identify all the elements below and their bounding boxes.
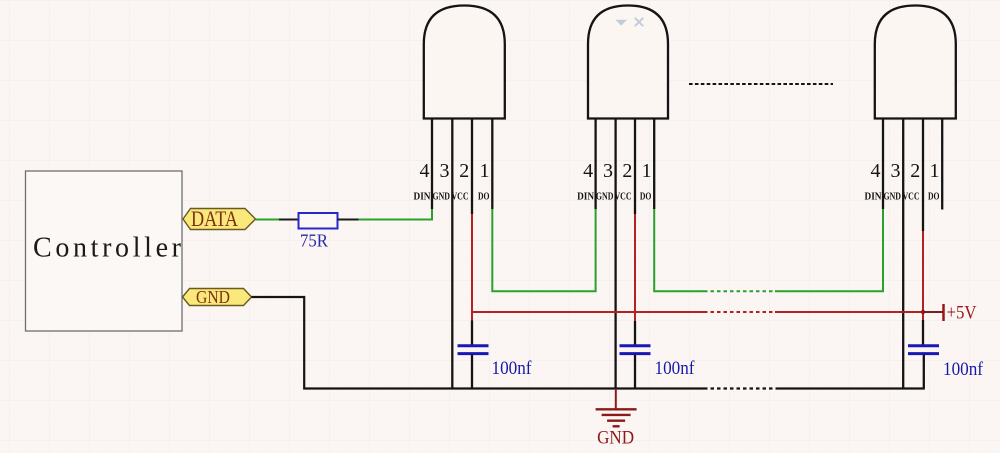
svg-text:DIN: DIN (414, 192, 432, 203)
wire LED1 VCC red riser (471, 214, 473, 321)
wire LED2 VCC red riser (634, 214, 636, 321)
svg-text:4: 4 (420, 160, 430, 182)
svg-text:DO: DO (478, 192, 490, 203)
LED D2 pin 1 DO (653, 119, 655, 210)
svg-text:4: 4 (583, 160, 593, 182)
+5V rail red solid right (775, 311, 921, 313)
svg-text:VCC: VCC (903, 192, 920, 203)
+5V rail red solid left (472, 311, 704, 313)
dashed continuation line between LED2 and LED3 (689, 83, 833, 85)
junction dot rail x LED3 VCC (921, 310, 925, 314)
svg-text:VCC: VCC (615, 192, 632, 203)
LED D1 pin 4 DIN (431, 119, 433, 210)
toolbar artifact icon triangle (616, 20, 628, 26)
LED D3 pin 3 GND (902, 119, 904, 389)
svg-text:3: 3 (440, 160, 450, 182)
port GND (183, 287, 252, 307)
LED D3 pin 4 DIN (882, 119, 884, 210)
wire LED3 VCC red riser (922, 231, 924, 320)
LED D1 pin 3 GND (451, 119, 453, 389)
ground symbol GND (596, 389, 637, 449)
svg-text:100nf: 100nf (492, 359, 533, 379)
wire GND flag to ground bus (252, 297, 705, 389)
resistor R1 (299, 213, 338, 251)
svg-text:DATA: DATA (191, 206, 238, 231)
svg-text:1: 1 (642, 160, 652, 182)
svg-text:+5V: +5V (947, 304, 978, 324)
ground bus dashed continuation (704, 387, 779, 389)
ground bus solid right (779, 387, 925, 389)
wire R1 right lead (black) (338, 219, 359, 221)
controller box U1 (26, 171, 183, 331)
svg-text:GND: GND (433, 192, 451, 203)
svg-text:GND: GND (596, 192, 614, 203)
svg-text:DIN: DIN (865, 192, 883, 203)
+5V rail red dashed (704, 311, 775, 313)
wire continuation (green dashed) (704, 290, 775, 292)
svg-text:75R: 75R (300, 231, 328, 251)
capacitor C2 (620, 321, 696, 389)
wire continuation to LED3 DIN (green solid) (775, 209, 883, 291)
LED D3 body (875, 6, 956, 119)
svg-text:DO: DO (928, 192, 940, 203)
svg-text:GND: GND (597, 428, 634, 449)
svg-text:2: 2 (459, 160, 469, 182)
+5V rail dark segment to power port (921, 311, 944, 313)
svg-text:2: 2 (910, 160, 920, 182)
wire DATA to R1 (black segment) (279, 219, 299, 221)
wire LED2 DO to continuation (green solid) (654, 209, 704, 291)
LED D3 pin 1 DO (941, 119, 943, 210)
LED D3 pin 2 VCC (922, 119, 924, 232)
svg-text:GND: GND (884, 192, 902, 203)
wire R1 to LED1 DIN (green) (359, 209, 433, 220)
power port +5V (944, 304, 978, 324)
svg-text:3: 3 (891, 160, 901, 182)
toolbar artifact icon cross (635, 18, 643, 26)
svg-text:DIN: DIN (577, 192, 595, 203)
LED D2 pin 4 DIN (594, 119, 596, 210)
LED D1 body (424, 6, 505, 119)
svg-text:1: 1 (930, 160, 940, 182)
svg-text:3: 3 (603, 160, 613, 182)
wire LED1 DO to LED2 DIN (green) (492, 209, 595, 291)
svg-text:VCC: VCC (452, 192, 469, 203)
LED D1 pin 1 DO (491, 119, 493, 210)
svg-text:4: 4 (871, 160, 881, 182)
svg-text:100nf: 100nf (655, 359, 696, 379)
LED D2 pin 3 GND (614, 119, 616, 390)
capacitor C1 (458, 321, 533, 389)
svg-text:2: 2 (622, 160, 632, 182)
wire DATA to R1 (green segment) (256, 219, 280, 221)
svg-text:DO: DO (640, 192, 652, 203)
port DATA (183, 206, 256, 231)
LED D2 body (588, 6, 668, 119)
svg-text:GND: GND (196, 287, 230, 307)
capacitor C3 (908, 320, 984, 389)
svg-text:Controller: Controller (33, 233, 182, 264)
svg-text:100nf: 100nf (943, 360, 984, 380)
LED D1 pin 2 VCC (471, 119, 473, 215)
svg-text:1: 1 (480, 160, 490, 182)
LED D2 pin 2 VCC (634, 119, 636, 215)
